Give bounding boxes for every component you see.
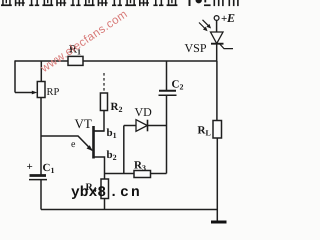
wire VD left vertical bbox=[123, 126, 125, 174]
caption text (clipped at top) bbox=[0, 0, 253, 8]
terminal +E bbox=[214, 11, 235, 25]
wire RP bottom to C1 bbox=[40, 98, 42, 175]
potentiometer RP bbox=[32, 82, 60, 99]
wire RL to ground bbox=[216, 138, 218, 221]
wire VD horizontal bbox=[124, 125, 167, 127]
svg-text:C1: C1 bbox=[43, 162, 55, 175]
wire bottom rail bbox=[41, 209, 218, 211]
wire top rail bbox=[15, 60, 217, 62]
svg-text:RL: RL bbox=[198, 125, 211, 138]
red watermark bbox=[39, 8, 130, 75]
svg-text:RP: RP bbox=[47, 87, 60, 98]
resistor R4 bbox=[86, 179, 109, 199]
wire +E terminal lead bbox=[216, 20, 218, 32]
wire C2 to R3 vertical lower bbox=[166, 96, 168, 174]
svg-text:VT: VT bbox=[75, 116, 92, 131]
resistor RL bbox=[198, 121, 222, 139]
resistor R2 bbox=[100, 73, 122, 114]
svg-text:VSP: VSP bbox=[185, 41, 207, 55]
svg-text:R2: R2 bbox=[111, 101, 123, 114]
wire C1 bottom bbox=[40, 180, 42, 210]
wire right rail to RL bbox=[216, 61, 218, 121]
svg-text:R3: R3 bbox=[134, 160, 146, 173]
wire R4 bottom bbox=[104, 199, 106, 210]
wire R2 b1 elbow bbox=[95, 111, 105, 132]
svg-text:b2: b2 bbox=[107, 149, 117, 162]
capacitor C2 bbox=[159, 79, 184, 96]
black watermark ybx8.cn bbox=[71, 185, 142, 201]
wire emitter lead bbox=[41, 136, 92, 150]
wire C2 branch vertical upper bbox=[166, 61, 168, 90]
svg-text:+: + bbox=[27, 161, 33, 173]
diode VD bbox=[135, 105, 153, 131]
wire b2 to R3 horizontal bbox=[105, 173, 167, 175]
wire RP wiper bbox=[15, 92, 34, 94]
svg-text:E: E bbox=[226, 11, 235, 25]
wire RP top drop bbox=[40, 61, 42, 82]
ground bbox=[211, 221, 227, 224]
resistor R3 bbox=[134, 160, 151, 178]
wire right rail upper bbox=[216, 44, 218, 61]
transistor VT (unijunction) bbox=[71, 116, 117, 162]
resistor R1 bbox=[68, 44, 83, 66]
capacitor C1 bbox=[27, 161, 55, 180]
wire left loop vertical bbox=[14, 60, 16, 92]
svg-text:C2: C2 bbox=[172, 79, 184, 92]
svg-text:e: e bbox=[71, 139, 76, 150]
svg-text:VD: VD bbox=[135, 105, 153, 119]
svg-text:b1: b1 bbox=[107, 127, 117, 140]
photothyristor VSP bbox=[185, 20, 234, 55]
wire b2 elbow down bbox=[95, 157, 105, 179]
